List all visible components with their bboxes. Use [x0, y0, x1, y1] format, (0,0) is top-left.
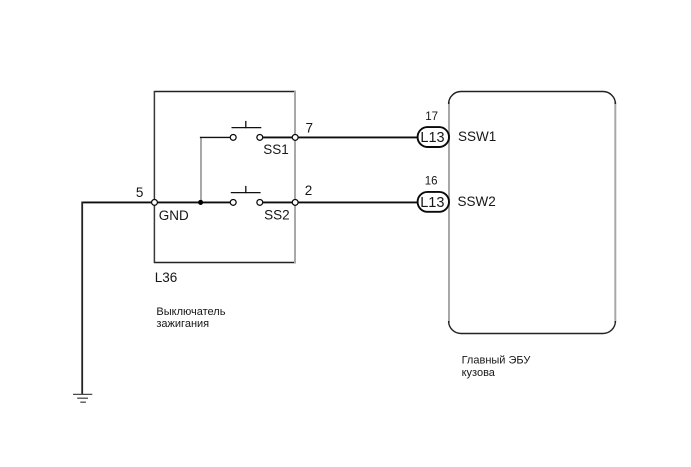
svg-text:GND: GND: [159, 208, 189, 223]
svg-text:L36: L36: [155, 270, 178, 285]
svg-text:16: 16: [425, 175, 438, 187]
svg-text:7: 7: [306, 121, 314, 136]
svg-text:SSW2: SSW2: [458, 194, 496, 209]
svg-text:L13: L13: [420, 195, 444, 211]
svg-text:17: 17: [425, 111, 438, 123]
svg-text:Главный ЭБУ: Главный ЭБУ: [462, 355, 532, 367]
svg-text:зажигания: зажигания: [156, 318, 209, 330]
svg-text:L13: L13: [420, 130, 444, 146]
svg-text:2: 2: [305, 183, 313, 198]
svg-text:5: 5: [136, 185, 144, 200]
svg-text:SS2: SS2: [264, 208, 290, 223]
svg-text:Выключатель: Выключатель: [156, 306, 225, 318]
svg-text:кузова: кузова: [462, 367, 496, 379]
svg-text:SS1: SS1: [263, 142, 289, 157]
svg-text:SSW1: SSW1: [458, 129, 496, 144]
